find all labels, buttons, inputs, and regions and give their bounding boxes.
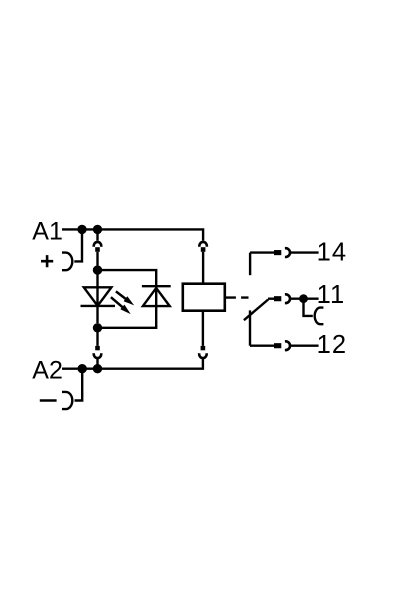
node LED top junction — [93, 265, 102, 274]
plug pin (11) — [274, 296, 281, 301]
clamp terminal 11 (cage clamp arc) — [315, 308, 324, 325]
wire through LED — [96, 270, 98, 306]
wire contact 12 — [250, 345, 275, 347]
minus sign — [40, 399, 57, 402]
freewheel diode triangle — [143, 288, 170, 306]
node LED bottom junction — [93, 323, 102, 332]
mechanical linkage dashed line — [226, 296, 249, 298]
plus sign — [41, 255, 53, 267]
wire A2 rail — [62, 358, 203, 368]
plug pin (LED branch bottom) — [95, 346, 100, 350]
plug socket (LED branch) — [94, 242, 102, 247]
moving contact arm — [244, 300, 268, 321]
wire contact 14 — [250, 251, 275, 253]
wire coil to bottom pin — [202, 311, 204, 346]
wire A2 to minus clamp — [75, 369, 83, 401]
node junction dot on A2 rail (plug branch) — [93, 364, 102, 373]
wire socket to label 12 — [290, 345, 319, 347]
wire LED to bottom junction — [96, 306, 98, 323]
plug pin (coil top) — [201, 247, 206, 252]
wire pin to coil — [202, 252, 204, 284]
contact 14 fixed stub (NO) — [249, 253, 251, 276]
LED cathode bar — [81, 305, 116, 307]
svg-text:12: 12 — [317, 331, 348, 359]
svg-text:14: 14 — [317, 239, 348, 267]
node junction dot on A1 rail (clamp branch) — [77, 225, 86, 234]
plug socket (11) — [285, 294, 290, 303]
node junction dot on A1 rail (plug branch) — [93, 225, 102, 234]
node junction dot on 11 — [299, 294, 308, 303]
wire socket to label 14 — [290, 251, 319, 253]
plug pin (14) — [274, 250, 281, 255]
wire bottom junction to pin — [96, 328, 98, 346]
plug pin (LED branch) — [95, 247, 100, 252]
plug pin (coil bottom) — [201, 346, 206, 350]
plug socket (12) — [285, 341, 290, 350]
wire 11 to clamp — [304, 299, 313, 316]
wire top to freewheel diode branch — [98, 270, 157, 284]
plug pin (12) — [274, 343, 281, 348]
plug socket (coil top) — [199, 242, 207, 247]
wire pin to LED node — [96, 252, 98, 266]
LED emission arrow 1 — [116, 291, 134, 305]
wire A1 rail — [62, 229, 203, 240]
wire socket to label 11 — [290, 298, 319, 300]
wire diode branch return — [98, 306, 157, 328]
contact 12 fixed stub (NC) — [249, 310, 251, 345]
LED emission arrow 2 — [111, 297, 131, 314]
plug socket (LED branch bottom) — [94, 353, 102, 358]
wire contact 11 — [268, 298, 275, 300]
clamp terminal A2 (cage clamp arc) — [62, 392, 72, 409]
svg-text:A2: A2 — [32, 356, 63, 384]
relay coil K1 — [183, 284, 225, 311]
svg-text:11: 11 — [317, 281, 346, 309]
plug socket (14) — [285, 248, 290, 257]
freewheel diode cathode bar — [142, 285, 171, 287]
LED triangle — [84, 287, 112, 306]
plug socket (coil bottom) — [199, 353, 207, 358]
wire socket to A2 rail — [96, 358, 98, 369]
wire through freewheel diode — [155, 284, 157, 306]
clamp terminal A1 (cage clamp arc) — [62, 253, 72, 271]
node junction dot on A2 rail (clamp branch) — [78, 364, 87, 373]
wire A1 plug stub — [96, 229, 98, 240]
svg-text:A1: A1 — [32, 218, 63, 246]
wire A1 to plus clamp — [74, 229, 82, 261]
